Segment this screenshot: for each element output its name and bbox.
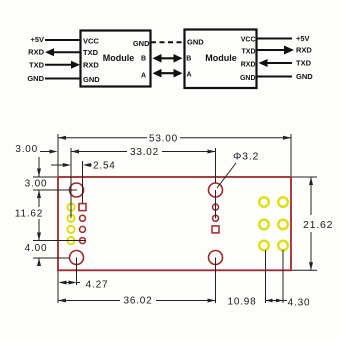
svg-text:53.00: 53.00 (149, 133, 178, 144)
svg-text:VCC: VCC (83, 37, 99, 46)
svg-text:3.00: 3.00 (15, 144, 38, 155)
svg-text:+5V: +5V (30, 35, 44, 44)
svg-text:B: B (186, 55, 191, 62)
svg-text:TXD: TXD (242, 49, 256, 56)
svg-text:A: A (141, 73, 146, 80)
svg-text:GND: GND (83, 75, 100, 84)
svg-text:11.62: 11.62 (15, 209, 43, 220)
svg-text:4.00: 4.00 (25, 243, 48, 254)
svg-text:TXD: TXD (296, 59, 312, 68)
svg-text:36.02: 36.02 (123, 296, 152, 307)
svg-text:4.27: 4.27 (86, 280, 109, 291)
svg-text:3.00: 3.00 (25, 179, 48, 190)
svg-text:2.54: 2.54 (93, 161, 116, 172)
svg-text:GND: GND (296, 72, 313, 81)
svg-text:21.62: 21.62 (303, 219, 333, 231)
svg-text:Module: Module (205, 53, 237, 63)
svg-text:Module: Module (103, 53, 135, 63)
svg-text:GND: GND (27, 74, 44, 83)
svg-text:GND: GND (133, 39, 150, 48)
svg-text:RXD: RXD (296, 46, 312, 55)
svg-text:RXD: RXD (241, 62, 256, 69)
svg-text:B: B (141, 56, 146, 63)
svg-text:10.98: 10.98 (227, 297, 256, 308)
svg-text:+5V: +5V (296, 34, 310, 43)
svg-text:TXD: TXD (29, 61, 45, 70)
svg-text:33.02: 33.02 (130, 147, 159, 158)
svg-text:TXD: TXD (83, 48, 99, 57)
svg-text:GND: GND (240, 75, 256, 82)
svg-text:RXD: RXD (83, 61, 99, 70)
svg-text:VCC: VCC (241, 37, 256, 44)
svg-text:A: A (186, 72, 191, 79)
svg-text:GND: GND (187, 38, 204, 47)
svg-text:RXD: RXD (28, 48, 44, 57)
svg-text:4.30: 4.30 (288, 298, 311, 309)
svg-text:Φ3.2: Φ3.2 (233, 151, 259, 163)
